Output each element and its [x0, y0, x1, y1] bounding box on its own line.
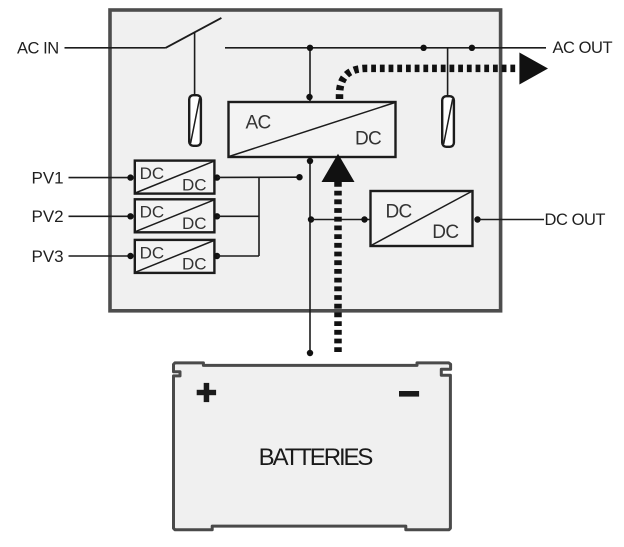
converter U2 DC/DC output	[371, 191, 473, 246]
svg-text:DC: DC	[182, 255, 207, 274]
battery pack outline	[174, 363, 451, 530]
node PV3 input	[127, 253, 133, 259]
wire PV1 output	[217, 176, 297, 178]
svg-text:DC: DC	[182, 175, 207, 194]
svg-text:PV1: PV1	[32, 168, 64, 187]
battery negative terminal	[399, 391, 419, 397]
svg-text:AC: AC	[246, 113, 271, 134]
svg-text:DC: DC	[140, 203, 165, 222]
svg-text:DC: DC	[432, 222, 458, 243]
node AC bus tap	[307, 45, 313, 51]
node U2 input	[361, 216, 367, 222]
wire PV3 output	[217, 255, 259, 257]
switch S1 blade	[166, 18, 222, 48]
svg-text:BATTERIES: BATTERIES	[259, 444, 373, 471]
node battery wire end	[307, 350, 313, 356]
svg-text:DC: DC	[355, 128, 381, 149]
wire AC bus to AC OUT	[225, 47, 546, 49]
node U2 output	[474, 216, 480, 222]
wire DC out	[480, 219, 544, 221]
node PV2 output	[214, 213, 220, 219]
power flow arrow battery to inverter	[322, 154, 355, 352]
svg-text:PV2: PV2	[32, 207, 64, 226]
svg-text:DC: DC	[140, 164, 165, 183]
node PV3 output	[214, 253, 220, 259]
wire AC bus to fuse F2	[447, 48, 449, 96]
wire DC bus vertical	[309, 158, 311, 351]
converter PV1 DC/DC	[135, 161, 215, 195]
svg-text:DC: DC	[386, 201, 412, 222]
node U1 input	[306, 94, 312, 100]
wire AC bus tap to inverter U1	[309, 48, 311, 101]
svg-text:DC: DC	[182, 214, 207, 233]
fuse F2	[442, 96, 454, 147]
node PV1 input	[127, 174, 133, 180]
converter PV3 DC/DC	[135, 240, 215, 274]
wire switch to fuse F1	[194, 33, 196, 95]
wire PV3 input	[69, 255, 131, 257]
wire PV1 input	[69, 177, 131, 179]
power flow arrow inverter to AC out	[340, 53, 549, 100]
wire DC bus to converter U2	[311, 219, 370, 221]
node AC bus left	[420, 45, 426, 51]
wire AC in	[65, 47, 166, 49]
node DC bus top	[307, 158, 313, 164]
wire PV2 input	[69, 215, 131, 217]
battery positive terminal	[197, 383, 216, 402]
enclosure inverter cabinet	[110, 10, 501, 311]
node PV bus end	[296, 174, 302, 180]
wire PV collector bus	[258, 177, 260, 256]
svg-text:AC OUT: AC OUT	[553, 39, 613, 57]
wire PV2 output	[217, 215, 259, 217]
node PV1 output	[214, 174, 220, 180]
converter PV2 DC/DC	[135, 199, 215, 233]
node AC bus right	[469, 45, 475, 51]
converter U1 AC/DC inverter	[229, 102, 396, 157]
node DC bus mid	[308, 216, 314, 222]
svg-text:PV3: PV3	[32, 247, 64, 266]
svg-text:DC OUT: DC OUT	[545, 211, 606, 229]
fuse F1	[189, 95, 201, 146]
node PV2 input	[127, 213, 133, 219]
svg-text:AC IN: AC IN	[17, 39, 59, 57]
svg-text:DC: DC	[140, 243, 165, 262]
